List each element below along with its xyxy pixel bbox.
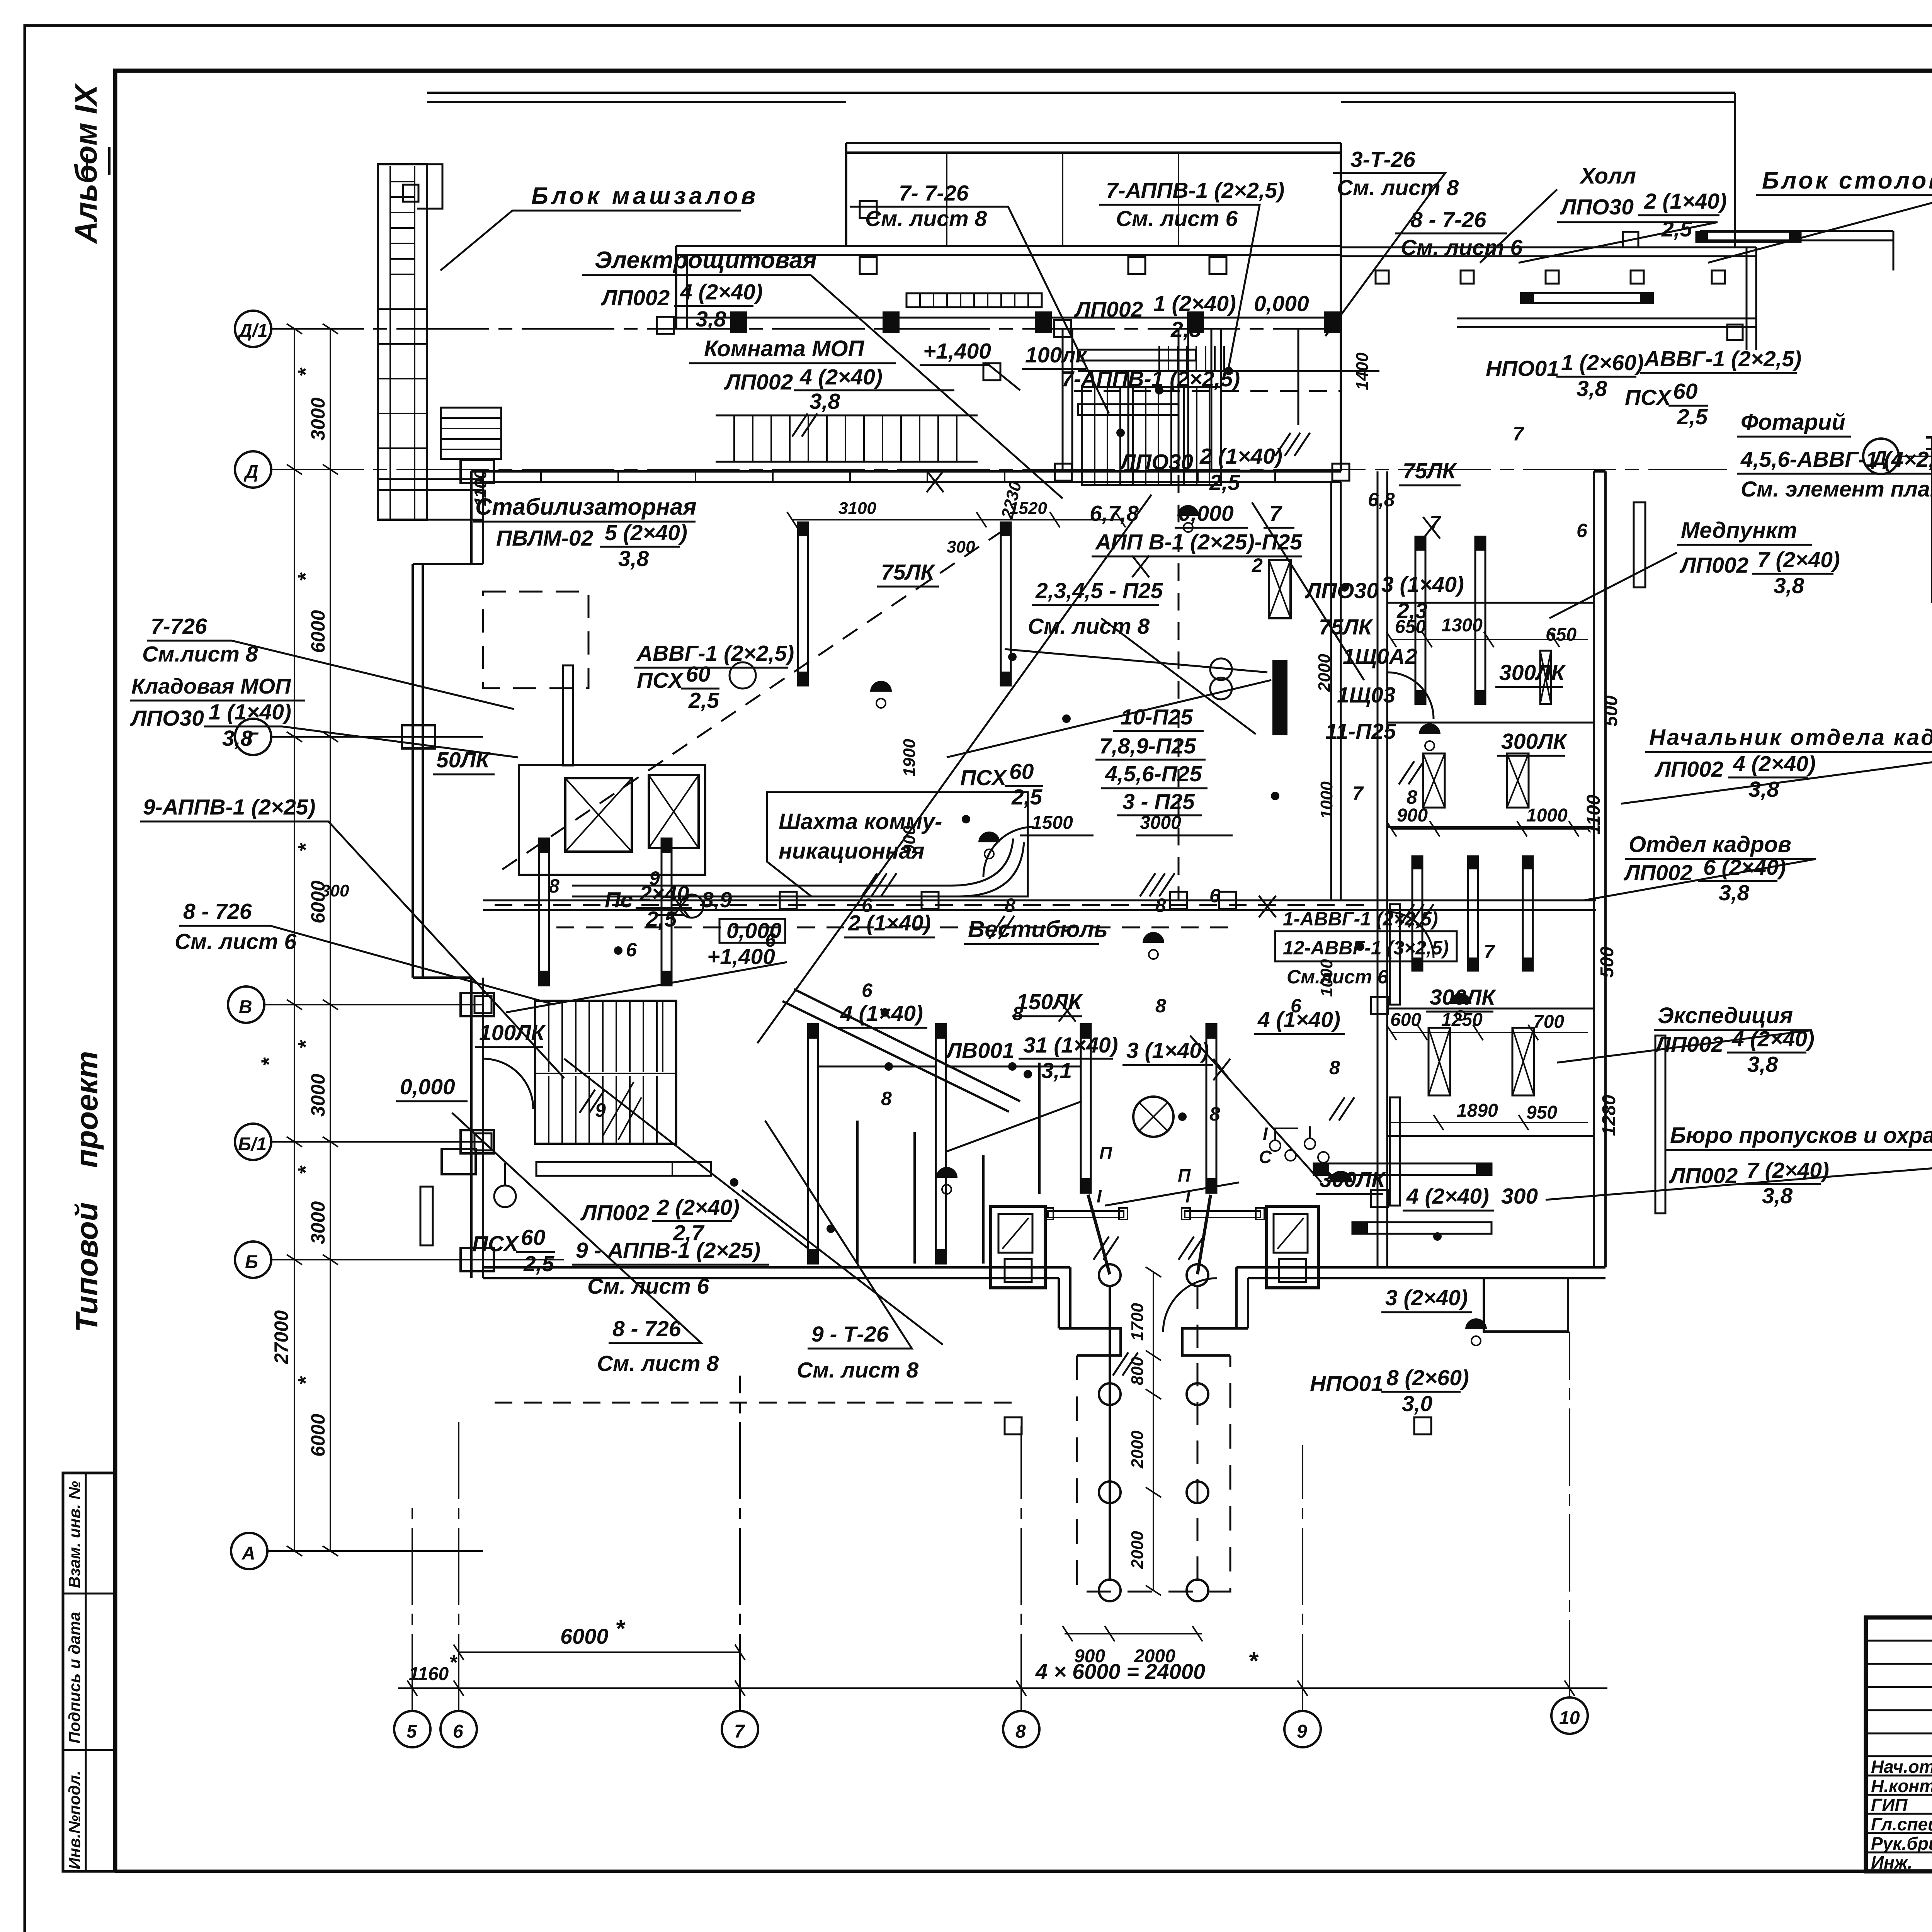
svg-text:См. лист 6: См. лист 6 bbox=[175, 929, 296, 954]
svg-text:4,5,6-П25: 4,5,6-П25 bbox=[1105, 762, 1202, 786]
label 9-APPV left bbox=[143, 795, 315, 820]
signature rows text bbox=[1871, 1757, 1932, 1872]
entrance pendant cluster bbox=[1270, 1126, 1329, 1163]
label AVVG mid bbox=[636, 641, 794, 666]
svg-text:*: * bbox=[293, 572, 318, 582]
svg-text:8: 8 bbox=[881, 1088, 892, 1109]
svg-text:2000: 2000 bbox=[1315, 654, 1334, 692]
svg-text:Типовой проект: Типовой проект bbox=[70, 1051, 104, 1332]
top dim line 3100 bbox=[787, 512, 1126, 527]
label 11-P25 bbox=[1325, 719, 1396, 744]
canopy columns bbox=[1099, 1264, 1208, 1601]
label LP002 2 bbox=[580, 1195, 740, 1245]
byuro horizontal bars bbox=[1314, 1163, 1492, 1175]
svg-text:900: 900 bbox=[900, 825, 919, 854]
svg-text:500: 500 bbox=[1601, 696, 1621, 726]
svg-text:Б: Б bbox=[245, 1252, 258, 1272]
svg-text:См. лист 8: См. лист 8 bbox=[797, 1358, 918, 1383]
svg-text:2,5: 2,5 bbox=[688, 688, 720, 713]
svg-text:7- 7-26: 7- 7-26 bbox=[899, 181, 969, 206]
axis D circle bbox=[1863, 439, 1899, 474]
svg-text:7: 7 bbox=[734, 1721, 745, 1742]
svg-text:3,8: 3,8 bbox=[618, 546, 649, 571]
svg-text:1 (2×40): 1 (2×40) bbox=[1153, 291, 1236, 316]
dim 6000 bottom bbox=[459, 1651, 740, 1653]
mashzal wing connector bbox=[378, 479, 483, 520]
svg-text:9 - АППВ-1 (2×25): 9 - АППВ-1 (2×25) bbox=[576, 1238, 760, 1263]
signature grid horizontals bbox=[1866, 1641, 1932, 1852]
svg-text:2,5: 2,5 bbox=[1209, 470, 1241, 495]
svg-text:ЛП002: ЛП002 bbox=[580, 1201, 650, 1225]
left entry pad bbox=[442, 1149, 476, 1174]
svg-text:В: В bbox=[239, 997, 252, 1017]
svg-text:150ЛК: 150ЛК bbox=[1016, 990, 1083, 1014]
svg-text:1250: 1250 bbox=[1441, 1010, 1483, 1030]
svg-text:4 (2×40): 4 (2×40) bbox=[680, 280, 763, 304]
komnata MOP comb bbox=[716, 415, 978, 462]
stolovaya walls bbox=[1700, 231, 1893, 270]
left axis circles bbox=[228, 311, 271, 1569]
label ekspeditsiya bbox=[1658, 1003, 1793, 1028]
svg-text:300ЛК: 300ЛК bbox=[1501, 729, 1568, 754]
portal steps bbox=[1059, 1267, 1248, 1355]
stabilizer room dashed bbox=[483, 592, 588, 688]
svg-text:*: * bbox=[257, 1057, 281, 1066]
svg-text:300: 300 bbox=[1501, 1184, 1538, 1209]
svg-text:300: 300 bbox=[321, 881, 349, 900]
svg-text:650: 650 bbox=[1395, 617, 1426, 637]
otdel bars bbox=[1412, 856, 1533, 971]
svg-text:См.лист 8: См.лист 8 bbox=[142, 642, 258, 667]
svg-text:3,8: 3,8 bbox=[1748, 777, 1779, 802]
svg-text:1400: 1400 bbox=[1353, 352, 1372, 390]
appv tick row bbox=[1159, 346, 1224, 371]
svg-text:2,8: 2,8 bbox=[1170, 317, 1202, 342]
svg-text:Инж.: Инж. bbox=[1871, 1852, 1913, 1872]
dims nachalnik bbox=[1397, 794, 1604, 835]
label 0000 box bbox=[719, 919, 785, 943]
junction boxes bbox=[474, 317, 1431, 1434]
svg-text:*: * bbox=[293, 1040, 318, 1049]
door swings bbox=[483, 672, 1434, 1332]
svg-text:60: 60 bbox=[686, 662, 711, 687]
svg-text:100лк: 100лк bbox=[1025, 343, 1088, 367]
svg-text:0,000: 0,000 bbox=[1254, 291, 1309, 316]
svg-text:4 (2×40): 4 (2×40) bbox=[1733, 752, 1816, 776]
svg-text:Холл: Холл bbox=[1579, 163, 1636, 189]
svg-text:АВВГ-1 (2×2,5): АВВГ-1 (2×2,5) bbox=[1643, 347, 1801, 371]
detail upper walls bbox=[1926, 437, 1932, 449]
label LV001 bbox=[945, 1033, 1118, 1083]
svg-text:6000: 6000 bbox=[307, 610, 329, 653]
label NPO01 8 bbox=[1310, 1366, 1469, 1416]
svg-text:6: 6 bbox=[1577, 520, 1588, 541]
svg-text:ПСХ: ПСХ bbox=[637, 668, 684, 693]
svg-text:1000: 1000 bbox=[1526, 805, 1568, 826]
label 1SCH03 bbox=[1337, 683, 1396, 707]
svg-text:8: 8 bbox=[1155, 895, 1166, 916]
svg-text:3,8: 3,8 bbox=[696, 307, 726, 332]
svg-text:Вестибюль: Вестибюль bbox=[968, 916, 1108, 942]
svg-text:1Щ0А2: 1Щ0А2 bbox=[1343, 644, 1417, 669]
svg-text:2 (2×40): 2 (2×40) bbox=[656, 1195, 740, 1220]
dims ekspeditsiya bbox=[1457, 1095, 1619, 1136]
svg-text:10: 10 bbox=[1559, 1708, 1580, 1728]
svg-text:*: * bbox=[1248, 1647, 1259, 1675]
svg-text:3 (2×40): 3 (2×40) bbox=[1385, 1286, 1468, 1310]
label 9-T-26 bottom bbox=[797, 1322, 918, 1383]
wing connector stairs bbox=[441, 408, 501, 459]
label AVVG box bbox=[1283, 908, 1449, 988]
svg-text:2,5: 2,5 bbox=[646, 907, 677, 932]
svg-text:ЛПО30: ЛПО30 bbox=[1560, 195, 1634, 219]
svg-text:ЛП002: ЛП002 bbox=[1679, 553, 1749, 578]
svg-text:*: * bbox=[615, 1616, 626, 1642]
label holl bbox=[1560, 163, 1727, 241]
svg-text:7: 7 bbox=[1430, 512, 1441, 534]
label LP002 1 bbox=[1074, 291, 1236, 342]
label 100LK bbox=[1025, 343, 1088, 367]
svg-text:7-АППВ-1 (2×2,5): 7-АППВ-1 (2×2,5) bbox=[1106, 178, 1284, 203]
label 0000 left bbox=[400, 1075, 455, 1099]
x marks bbox=[672, 471, 1440, 1080]
left outside bar bbox=[420, 1187, 433, 1245]
svg-text:I: I bbox=[1185, 1186, 1191, 1206]
svg-text:ЛП002: ЛП002 bbox=[600, 286, 670, 310]
svg-text:*: * bbox=[449, 1651, 458, 1674]
svg-text:ЛВ001: ЛВ001 bbox=[945, 1038, 1014, 1063]
svg-text:6: 6 bbox=[862, 895, 873, 916]
inner frame bottom bbox=[115, 1870, 1866, 1873]
svg-text:ЛПО30: ЛПО30 bbox=[1119, 450, 1193, 474]
svg-text:100ЛК: 100ЛК bbox=[479, 1020, 546, 1045]
label otdel kadrov bbox=[1629, 832, 1791, 857]
svg-text:4 (1×40): 4 (1×40) bbox=[840, 1001, 923, 1026]
svg-text:8: 8 bbox=[1012, 1003, 1023, 1024]
label 75LK left bbox=[881, 560, 936, 585]
expedition bars bbox=[1429, 1028, 1534, 1095]
svg-text:Блок машзалов: Блок машзалов bbox=[531, 183, 759, 209]
svg-text:2,3,4,5 - П25: 2,3,4,5 - П25 bbox=[1035, 578, 1163, 603]
elevator shaft 2 bbox=[649, 775, 699, 848]
svg-text:3 (1×40): 3 (1×40) bbox=[1126, 1038, 1209, 1063]
svg-text:3 - П25: 3 - П25 bbox=[1122, 789, 1195, 814]
svg-text:*: * bbox=[293, 1165, 318, 1175]
label LPO30 3 bbox=[1304, 572, 1464, 623]
wing south notch bbox=[1484, 1278, 1568, 1332]
label 7-T-26 bbox=[865, 181, 987, 231]
svg-text:См. лист 8: См. лист 8 bbox=[1028, 614, 1150, 639]
svg-text:НПО01: НПО01 bbox=[1310, 1371, 1383, 1396]
svg-text:900: 900 bbox=[1397, 805, 1428, 826]
svg-text:См.лист 6: См.лист 6 bbox=[1287, 966, 1389, 988]
nachalnik bars bbox=[1423, 753, 1445, 808]
svg-text:П: П bbox=[1099, 1143, 1112, 1163]
svg-text:1Щ03: 1Щ03 bbox=[1337, 683, 1396, 707]
svg-text:Экспедиция: Экспедиция bbox=[1658, 1003, 1793, 1028]
hall square row bbox=[1376, 232, 1743, 340]
svg-text:3,8: 3,8 bbox=[1747, 1052, 1778, 1077]
svg-text:2000: 2000 bbox=[1128, 1430, 1147, 1469]
left main wall bbox=[471, 471, 1341, 564]
svg-text:1160: 1160 bbox=[409, 1664, 449, 1684]
AXES bbox=[228, 311, 1727, 1747]
svg-text:3,8: 3,8 bbox=[810, 389, 840, 414]
svg-text:1000: 1000 bbox=[1317, 781, 1336, 819]
svg-text:75ЛК: 75ЛК bbox=[1319, 615, 1374, 639]
portal side bars bbox=[1048, 1211, 1124, 1218]
svg-text:С: С bbox=[1259, 1147, 1272, 1167]
black panel bar 1SCH03 bbox=[1272, 660, 1287, 735]
svg-text:4 × 6000 = 24000: 4 × 6000 = 24000 bbox=[1035, 1659, 1205, 1684]
svg-text:ЛП002: ЛП002 bbox=[724, 370, 793, 395]
top wall window ticks bbox=[541, 471, 1275, 482]
svg-text:Бюро пропусков и охрана, пульт: Бюро пропусков и охрана, пультовая bbox=[1670, 1123, 1932, 1148]
svg-text:6 (2×40): 6 (2×40) bbox=[1703, 855, 1786, 880]
top entrance bars bbox=[1078, 350, 1196, 361]
label 300LK n bbox=[1501, 729, 1568, 754]
svg-text:1890: 1890 bbox=[1457, 1100, 1498, 1121]
right outside piers bbox=[1634, 502, 1645, 587]
corner boxes upper rooms bbox=[860, 201, 1226, 274]
svg-text:ПСХ: ПСХ bbox=[960, 765, 1007, 790]
svg-text:1 (1×40): 1 (1×40) bbox=[209, 700, 291, 724]
svg-text:2,5: 2,5 bbox=[1677, 405, 1708, 429]
right wing dim lines bbox=[1386, 632, 1588, 1130]
right wing corridor wall bbox=[1378, 471, 1387, 1267]
svg-text:ПВЛМ-02: ПВЛМ-02 bbox=[496, 526, 593, 551]
label 300LK b bbox=[1320, 1167, 1386, 1192]
svg-text:9: 9 bbox=[649, 867, 660, 889]
shaft room bbox=[767, 792, 1028, 896]
left axis lines bbox=[264, 329, 1727, 1551]
right wing room dividers bbox=[1387, 603, 1594, 1136]
svg-text:8: 8 bbox=[1155, 995, 1166, 1017]
DETAIL bbox=[1863, 294, 1932, 968]
svg-text:См. лист 8: См. лист 8 bbox=[865, 206, 987, 231]
svg-text:3000: 3000 bbox=[1140, 813, 1181, 833]
svg-text:7: 7 bbox=[1513, 423, 1524, 445]
svg-text:I: I bbox=[1097, 1186, 1102, 1206]
svg-text:2,5: 2,5 bbox=[523, 1252, 555, 1276]
dim 500 vert bbox=[1601, 696, 1621, 726]
svg-text:7 (2×40): 7 (2×40) bbox=[1747, 1158, 1829, 1183]
label 75LK right bbox=[1403, 459, 1458, 483]
label blok stolovoy bbox=[1762, 167, 1932, 194]
axis D line bbox=[1899, 456, 1932, 457]
label 100LK left bbox=[479, 1020, 546, 1045]
svg-text:*: * bbox=[293, 367, 318, 377]
svg-text:1500: 1500 bbox=[1032, 813, 1073, 833]
slash tick groups bbox=[580, 413, 1434, 1376]
svg-text:ЛП002: ЛП002 bbox=[1654, 1032, 1724, 1057]
label +1400 v bbox=[707, 944, 775, 969]
svg-text:6: 6 bbox=[765, 929, 776, 951]
canopy column lines bbox=[1109, 1286, 1111, 1580]
label 300LK o bbox=[1430, 985, 1497, 1010]
svg-text:Отдел кадров: Отдел кадров bbox=[1629, 832, 1791, 857]
svg-text:60: 60 bbox=[1673, 379, 1698, 404]
svg-text:Комната МОП: Комната МОП bbox=[704, 336, 864, 361]
svg-text:7 (2×40): 7 (2×40) bbox=[1757, 548, 1840, 572]
svg-text:8: 8 bbox=[549, 875, 560, 897]
svg-text:1 (2×60): 1 (2×60) bbox=[1561, 350, 1644, 375]
big lamp circle bbox=[1133, 1097, 1173, 1137]
svg-text:ЛП002: ЛП002 bbox=[1623, 861, 1693, 885]
label 7-APPV top bbox=[1106, 178, 1284, 231]
svg-text:1280: 1280 bbox=[1599, 1095, 1619, 1136]
mashzal stair hatch bbox=[390, 182, 415, 274]
svg-text:+1,400: +1,400 bbox=[923, 339, 991, 364]
label PSH shahta bbox=[960, 759, 1043, 810]
svg-text:1100: 1100 bbox=[1583, 794, 1604, 835]
svg-text:7-АППВ-1 (2×2,5): 7-АППВ-1 (2×2,5) bbox=[1061, 367, 1240, 391]
TITLEBLOCK bbox=[1866, 1481, 1932, 1932]
stabilizer bar bbox=[563, 665, 573, 765]
svg-text:1300: 1300 bbox=[1441, 615, 1483, 636]
black junction dots bbox=[614, 367, 1442, 1241]
single digit marks bbox=[549, 423, 1588, 1125]
svg-text:31 (1×40): 31 (1×40) bbox=[1023, 1033, 1118, 1058]
svg-text:9 - Т-26: 9 - Т-26 bbox=[811, 1322, 889, 1347]
canopy dims bbox=[1153, 1272, 1154, 1590]
svg-text:10-П25: 10-П25 bbox=[1121, 705, 1193, 730]
svg-text:0,000: 0,000 bbox=[400, 1075, 455, 1099]
svg-text:Рук.бриг.: Рук.бриг. bbox=[1871, 1833, 1932, 1854]
svg-text:8: 8 bbox=[1406, 786, 1417, 808]
svg-text:900: 900 bbox=[1074, 1646, 1105, 1667]
label LPO30 ladder bbox=[1119, 444, 1282, 495]
svg-text:8 - 726: 8 - 726 bbox=[612, 1316, 681, 1341]
label 2345-P25 bbox=[1028, 578, 1163, 639]
IX underline bbox=[87, 147, 109, 182]
hall long bars 75LK bbox=[798, 522, 808, 685]
label shahta bbox=[779, 809, 942, 864]
svg-text:ПСХ: ПСХ bbox=[1625, 385, 1672, 410]
svg-text:3,0: 3,0 bbox=[1402, 1391, 1433, 1416]
svg-text:1-АВВГ-1 (2×2,5): 1-АВВГ-1 (2×2,5) bbox=[1283, 908, 1438, 930]
svg-text:300ЛК: 300ЛК bbox=[1499, 660, 1566, 685]
svg-text:3,8: 3,8 bbox=[1577, 376, 1607, 401]
right wing outer wall bbox=[1594, 471, 1605, 1267]
svg-text:11-П25: 11-П25 bbox=[1325, 719, 1396, 744]
svg-text:Кладовая МОП: Кладовая МОП bbox=[131, 674, 291, 698]
svg-text:4 (2×40): 4 (2×40) bbox=[1406, 1184, 1489, 1209]
svg-text:300ЛК: 300ЛК bbox=[1320, 1167, 1386, 1192]
thin vestibule lamps bbox=[857, 1063, 1039, 1264]
stair landing bar bbox=[536, 1162, 711, 1176]
svg-text:Стабилизаторная: Стабилизаторная bbox=[475, 494, 697, 520]
feed wires to columns bbox=[1088, 1195, 1211, 1274]
svg-text:8: 8 bbox=[1015, 1721, 1026, 1742]
svg-text:1100: 1100 bbox=[471, 469, 490, 506]
svg-text:9: 9 bbox=[1297, 1721, 1307, 1742]
svg-text:950: 950 bbox=[1526, 1102, 1557, 1123]
top central block mid wall bbox=[676, 246, 1341, 329]
corridor mid walls bbox=[483, 900, 1596, 910]
vert dims misc bbox=[321, 352, 1372, 997]
canopy dashed outline bbox=[1077, 1355, 1230, 1592]
vestibule long bars bbox=[539, 838, 1400, 1264]
label 1500 3000 bbox=[1032, 813, 1181, 833]
svg-text:Нач.отд.: Нач.отд. bbox=[1871, 1757, 1932, 1777]
svg-text:ЛПО30: ЛПО30 bbox=[130, 706, 204, 731]
svg-text:5 (2×40): 5 (2×40) bbox=[605, 520, 687, 545]
svg-text:3000: 3000 bbox=[307, 1201, 329, 1244]
riser cluster verticals bbox=[1128, 329, 1298, 471]
svg-text:7-726: 7-726 bbox=[151, 614, 207, 639]
window sill hatch row bbox=[906, 293, 1042, 307]
svg-text:ЛП002: ЛП002 bbox=[1668, 1163, 1738, 1188]
svg-text:6: 6 bbox=[1209, 885, 1221, 906]
svg-text:См. элемент плана: См. элемент плана bbox=[1741, 477, 1932, 502]
svg-text:2 (1×40): 2 (1×40) bbox=[848, 911, 931, 935]
hall bar bbox=[1521, 293, 1653, 303]
svg-text:2,5: 2,5 bbox=[1011, 785, 1043, 810]
mashzal wing strip bbox=[378, 164, 427, 520]
svg-text:3 (1×40): 3 (1×40) bbox=[1381, 572, 1464, 597]
svg-text:60: 60 bbox=[521, 1225, 546, 1250]
svg-text:3,8: 3,8 bbox=[1762, 1184, 1793, 1208]
svg-text:8 - 7-26: 8 - 7-26 bbox=[1410, 207, 1486, 232]
label +1400 bbox=[923, 339, 991, 364]
roman numeral marks bbox=[1097, 1124, 1272, 1206]
svg-text:ЛПО30: ЛПО30 bbox=[1304, 578, 1379, 603]
svg-text:6,8: 6,8 bbox=[1368, 489, 1395, 510]
svg-text:8 - 726: 8 - 726 bbox=[183, 899, 252, 924]
elevator block bbox=[519, 765, 705, 875]
svg-text:800: 800 bbox=[1128, 1357, 1147, 1385]
svg-text:Д/1: Д/1 bbox=[237, 321, 268, 341]
svg-text:Взам. инв. №: Взам. инв. № bbox=[65, 1481, 83, 1588]
svg-text:7: 7 bbox=[1269, 501, 1282, 526]
svg-text:2000: 2000 bbox=[1128, 1531, 1147, 1569]
left wall column pads bbox=[402, 460, 494, 1271]
svg-text:См. лист 6: См. лист 6 bbox=[1116, 206, 1238, 231]
label stabilizatornaya bbox=[475, 494, 697, 520]
main stamp outer bbox=[1866, 1617, 1932, 1871]
label 8-726 bottom bbox=[597, 1316, 719, 1376]
black panel box bbox=[1269, 560, 1291, 618]
svg-text:8 (2×60): 8 (2×60) bbox=[1386, 1366, 1469, 1390]
svg-text:8: 8 bbox=[1329, 1057, 1340, 1078]
label 456 AVVG bbox=[1740, 447, 1932, 472]
svg-text:Пс: Пс bbox=[605, 888, 633, 912]
svg-text:3,8: 3,8 bbox=[1774, 573, 1804, 598]
svg-text:АПП В-1 (2×25)-П25: АПП В-1 (2×25)-П25 bbox=[1095, 530, 1303, 554]
label 3-1x40 bbox=[1126, 1038, 1209, 1063]
corridor wall segment right of shaft bbox=[1331, 482, 1341, 900]
tambour monitor box 2 bbox=[1267, 1206, 1318, 1288]
fotari x bar bbox=[1540, 651, 1551, 704]
label kladovaya MOP bbox=[131, 674, 291, 698]
svg-text:4 (2×40): 4 (2×40) bbox=[1731, 1027, 1815, 1051]
PLAN bbox=[378, 93, 1893, 1667]
wing window ticks bbox=[378, 309, 427, 448]
svg-text:6: 6 bbox=[862, 980, 873, 1001]
label medpunkt bbox=[1681, 518, 1797, 543]
bottom dim line 24000 bbox=[398, 1687, 1607, 1689]
svg-text:9: 9 bbox=[595, 1099, 606, 1121]
central corridor verticals bbox=[1063, 329, 1188, 471]
bottom grid stems bbox=[412, 1332, 1570, 1711]
svg-text:2 (1×40): 2 (1×40) bbox=[1199, 444, 1282, 469]
label 0000 top bbox=[1254, 291, 1309, 316]
svg-text:3000: 3000 bbox=[307, 1074, 329, 1117]
svg-text:ЛП002: ЛП002 bbox=[1074, 297, 1143, 322]
bottom axis circles bbox=[394, 1697, 1588, 1747]
svg-text:А: А bbox=[241, 1543, 255, 1564]
